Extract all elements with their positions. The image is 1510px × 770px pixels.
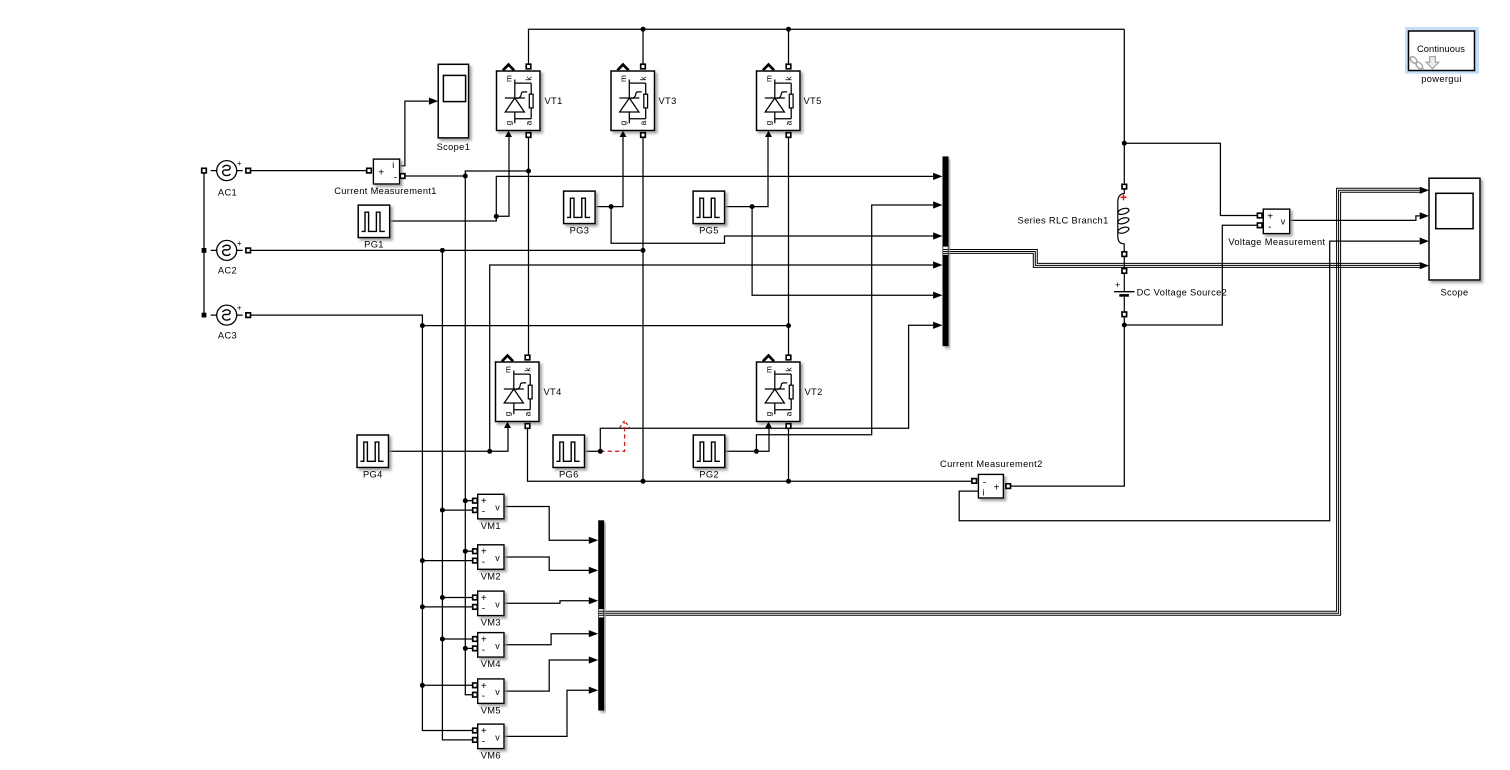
- voltage measurement VM5: [473, 679, 504, 716]
- wire gate net PG5 jog to VT5 gate: [752, 136, 768, 207]
- pulse generator PG3: [564, 191, 596, 236]
- svg-text:VT3: VT3: [659, 96, 677, 106]
- wire negative rail: VT4 anode to Current Measurement2 -: [528, 428, 972, 481]
- wire VM3 v to Mux2 input 3: [505, 601, 590, 604]
- Mux1 bus bar (gate pulses to Scope): [933, 156, 948, 346]
- svg-text:Current Measurement2: Current Measurement2: [940, 459, 1043, 469]
- wire gate net PG6: output to junction: [585, 450, 600, 452]
- junction phase A at VM2: [463, 549, 468, 554]
- wire phase B to VT3 anode: [642, 137, 644, 250]
- wire stub C to VM2 -: [422, 560, 472, 562]
- svg-text:i: i: [983, 487, 985, 497]
- wire VM2 v to Mux2 input 2: [505, 557, 590, 570]
- wire gate net PG5 to Mux1 input 5: [752, 207, 933, 296]
- thyristor VT4: [496, 355, 562, 428]
- wire CM1 i output to Scope1: [400, 101, 429, 166]
- wire phase C to VT5 anode: [788, 137, 790, 325]
- wire DC+ node to Voltage Measurement +: [1124, 143, 1257, 215]
- wire DC Voltage Source2 bottom to node: [1123, 317, 1125, 325]
- junction phase C at VM2: [420, 558, 425, 563]
- wire cathode rail VT1 k up and across to DC link: [529, 29, 1125, 64]
- pulse generator PG4: [357, 435, 389, 480]
- wire Series RLC Branch1 to DC Voltage Source2: [1123, 257, 1125, 268]
- svg-text:VM1: VM1: [481, 521, 501, 531]
- wire gate net PG3 to Mux1 input 3: [611, 207, 933, 244]
- inductor Series RLC Branch1: [1018, 184, 1130, 256]
- wire Voltage Measurement v to Scope input 2: [1290, 216, 1420, 221]
- svg-text:PG2: PG2: [699, 470, 719, 480]
- thyristor VT5: [757, 64, 822, 137]
- svg-text:+: +: [1115, 280, 1120, 290]
- svg-text:Scope1: Scope1: [437, 142, 471, 152]
- junction DC+ node: [1122, 141, 1127, 146]
- wire phase A vertical down to voltage measurements: [465, 176, 472, 695]
- junction phase A at VM4: [463, 646, 468, 651]
- wire gate net PG1: output to riser: [390, 176, 933, 221]
- voltage measurement VM3: [473, 591, 504, 628]
- svg-text:VT2: VT2: [805, 387, 823, 397]
- junction gate net PG4: [487, 449, 492, 454]
- wire gate net PG3: output to junction: [594, 206, 611, 208]
- pulse generator PG2: [693, 435, 725, 480]
- wire gate net PG2 to Mux1 input 2: [756, 205, 933, 451]
- wire phase A jog up to VT1/VT4 column: [465, 171, 528, 176]
- svg-text:AC3: AC3: [218, 330, 237, 340]
- voltage measurement VM4: [473, 633, 504, 670]
- thyristor VT1: [497, 64, 563, 137]
- bundle Mux2 output (VM voltages) to Scope input 1: [601, 188, 1420, 615]
- svg-text:powergui: powergui: [1421, 74, 1462, 84]
- wire VM6 v to Mux2 input 6: [505, 690, 590, 736]
- block Voltage Measurement: [1228, 209, 1325, 247]
- voltage measurement VM6: [473, 724, 504, 761]
- junction gate net PG3: [609, 204, 614, 209]
- svg-text:VT4: VT4: [544, 387, 562, 397]
- wire stub A to VM2 +: [465, 550, 472, 552]
- block Current Measurement2: [940, 459, 1043, 498]
- thyristor VT3: [611, 64, 677, 137]
- block powergui: [1405, 27, 1479, 84]
- svg-text:-: -: [1268, 222, 1271, 233]
- block Scope1: [429, 64, 470, 152]
- svg-text:VM4: VM4: [481, 659, 501, 669]
- junction phase C at VM5: [420, 683, 425, 688]
- svg-text:DC Voltage Source2: DC Voltage Source2: [1137, 288, 1228, 298]
- svg-text:Continuous: Continuous: [1417, 44, 1465, 54]
- unconnected signal PG6 (red dashed arrow): [600, 423, 624, 452]
- wire stub A to VM1 +: [465, 500, 472, 502]
- svg-text:PG5: PG5: [699, 226, 719, 236]
- svg-text:Current Measurement1: Current Measurement1: [334, 186, 437, 196]
- wire phase B down to negative rail: [642, 250, 644, 481]
- wire VM1 v to Mux2 input 1: [505, 507, 590, 541]
- svg-text:VM3: VM3: [481, 618, 501, 628]
- wire AC1 to Current Measurement1 +: [250, 170, 366, 172]
- pulse generator PG1: [358, 205, 390, 250]
- wire gate net PG2 jog to VT2 gate: [756, 427, 769, 452]
- bundle Mux1 output (gate pulses) to Scope input 4: [945, 250, 1420, 268]
- junction cathode rail at VT3: [641, 27, 646, 32]
- svg-text:Scope: Scope: [1440, 287, 1468, 297]
- junction phase B at VT3 column: [641, 248, 646, 253]
- wire stub B to VM4 +: [442, 638, 472, 640]
- wire phase B vertical down to voltage measurements: [442, 250, 472, 740]
- svg-text:Voltage Measurement: Voltage Measurement: [1228, 237, 1325, 247]
- wire phase C to VT2 cathode: [788, 326, 790, 355]
- wire AC common rail (AC1/AC2/AC3 left terminals): [203, 171, 205, 316]
- svg-text:VT1: VT1: [545, 96, 563, 106]
- wire VT3 k riser: [642, 29, 644, 64]
- wire CM2 i output loop to Scope input 3: [959, 241, 1419, 521]
- block Current Measurement1: [334, 159, 437, 196]
- junction phase C drop: [420, 323, 425, 328]
- wire VM5 v to Mux2 input 5: [505, 660, 590, 691]
- junction negative rail at VT2 anode: [786, 479, 791, 484]
- junction phase A at VT1/VT4 column: [526, 169, 531, 174]
- wire phase B: AC2 to VT3 column: [250, 249, 643, 251]
- block Scope: [1420, 178, 1480, 297]
- battery DC Voltage Source2: [1114, 269, 1227, 317]
- wire gate net PG5: output to junction: [723, 206, 752, 208]
- wire phase C: AC3 jog to VT5/VT2 column: [250, 315, 788, 326]
- wire stub B to VM1 -: [442, 509, 472, 511]
- wire stub C to VM3 -: [422, 606, 472, 608]
- svg-text:AC2: AC2: [218, 265, 237, 275]
- junction gate net PG2: [754, 449, 759, 454]
- wire gate net PG4: output to junction: [388, 450, 490, 452]
- AC source AC3: [211, 304, 251, 341]
- wire stub C to VM5 +: [422, 684, 472, 686]
- svg-text:VM2: VM2: [481, 571, 501, 581]
- svg-text:Series RLC Branch1: Series RLC Branch1: [1018, 216, 1109, 226]
- svg-text:-: -: [394, 173, 397, 184]
- wire gate net PG4 to Mux1 input 4: [490, 265, 933, 451]
- junction gate net PG5: [750, 204, 755, 209]
- svg-text:PG4: PG4: [363, 470, 383, 480]
- junction phase B drop: [440, 248, 445, 253]
- svg-text:AC1: AC1: [218, 188, 237, 198]
- thyristor VT2: [757, 355, 823, 428]
- wire gate net PG3 jog to VT3 gate: [611, 136, 623, 207]
- wire VM4 v to Mux2 input 4: [505, 634, 590, 645]
- svg-text:PG1: PG1: [364, 240, 384, 250]
- voltage measurement VM1: [473, 494, 504, 531]
- wire gate net PG1 jog to VT1 gate: [496, 136, 509, 217]
- AC source AC2: [211, 239, 251, 276]
- junction phase A at CM1 output: [463, 174, 468, 179]
- svg-text:PG3: PG3: [570, 226, 590, 236]
- junction phase C at VT5/VT2 column: [786, 323, 791, 328]
- pulse generator PG6: [553, 435, 585, 480]
- Mux2 bus bar (VM voltages to Scope): [589, 520, 604, 710]
- junction cathode rail at VT5: [786, 27, 791, 32]
- pulse generator PG5: [693, 191, 725, 236]
- wire phase A to VT4 cathode: [528, 171, 530, 355]
- wire phase C vertical down to voltage measurements: [422, 326, 472, 731]
- wire stub A to VM4 -: [465, 647, 472, 649]
- wire VT2 anode drop to negative rail: [788, 428, 790, 481]
- voltage measurement VM2: [473, 545, 504, 582]
- junction phase B at VM3: [440, 595, 445, 600]
- AC source AC1: [202, 159, 251, 198]
- svg-text:VM6: VM6: [481, 751, 501, 761]
- svg-text:VT5: VT5: [804, 96, 822, 106]
- svg-text:v: v: [1281, 217, 1286, 227]
- wire phase A: CM1 - output to junction A1: [403, 175, 466, 177]
- junction AC rail at AC2: [202, 248, 207, 253]
- junction negative rail at VT3 column: [641, 479, 646, 484]
- wire gate net PG2: output to junction: [724, 450, 757, 452]
- wire gate net PG6 to Mux1 input 6: [600, 325, 933, 451]
- junction AC rail at AC3: [202, 313, 207, 318]
- wire DC link positive down to Series RLC Branch1: [1123, 29, 1125, 183]
- svg-text:+: +: [994, 483, 1000, 494]
- svg-text:i: i: [392, 160, 394, 170]
- svg-text:VM5: VM5: [481, 705, 501, 715]
- wire stub B to VM3 +: [442, 597, 472, 599]
- junction gate net PG1: [494, 214, 499, 219]
- junction gate net PG6: [598, 449, 603, 454]
- junction phase A at VM1: [463, 498, 468, 503]
- wire VT5 k riser: [788, 29, 790, 64]
- junction phase C at VM3: [420, 604, 425, 609]
- junction DC- node: [1122, 323, 1127, 328]
- wire DC- node down to Current Measurement2 +: [1011, 325, 1125, 486]
- svg-text:PG6: PG6: [559, 470, 579, 480]
- wire phase A to VT1 anode: [528, 137, 530, 171]
- wire DC- node to Voltage Measurement -: [1124, 225, 1257, 325]
- junction phase B at VM1: [440, 508, 445, 513]
- junction phase B at VM4: [440, 637, 445, 642]
- wire gate net PG4 jog to VT4 gate: [490, 427, 508, 452]
- svg-text:+: +: [378, 168, 384, 179]
